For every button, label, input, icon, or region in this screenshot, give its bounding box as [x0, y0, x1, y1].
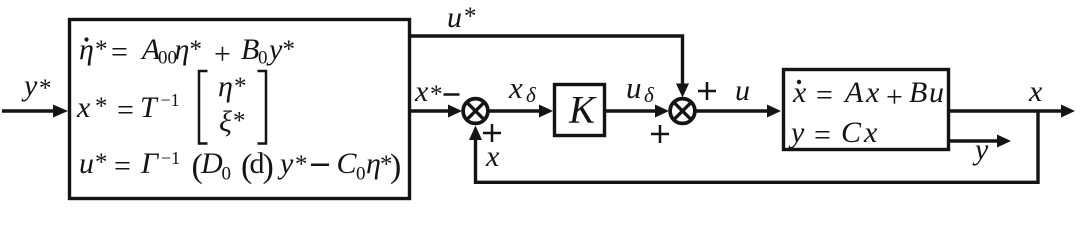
svg-text:B: B [909, 76, 927, 109]
svg-text:0: 0 [222, 164, 232, 185]
svg-text:x: x [485, 140, 500, 173]
svg-text:δ: δ [526, 83, 537, 107]
svg-text:y: y [21, 69, 38, 102]
svg-text:=: = [816, 79, 833, 112]
svg-text:C: C [337, 147, 358, 180]
svg-text:=: = [814, 119, 831, 152]
svg-text:+: + [214, 38, 231, 71]
svg-text:*: * [430, 81, 443, 108]
svg-text:η: η [218, 70, 233, 103]
svg-text:*: * [95, 149, 108, 176]
svg-text:*: * [234, 73, 247, 100]
svg-text:x: x [508, 70, 523, 105]
svg-text:*: * [39, 75, 52, 102]
svg-text:ξ: ξ [219, 106, 232, 139]
svg-text:x: x [1028, 75, 1043, 108]
svg-text:T: T [140, 91, 159, 124]
svg-text:*: * [95, 93, 108, 120]
svg-text:−1: −1 [161, 148, 180, 168]
svg-text:δ: δ [644, 83, 655, 107]
svg-text:K: K [568, 89, 597, 132]
svg-text:A: A [843, 76, 864, 109]
svg-text:Γ: Γ [140, 147, 160, 180]
svg-text:y: y [788, 116, 805, 149]
svg-text:u: u [626, 70, 642, 105]
svg-text:=: = [114, 150, 131, 183]
svg-text:=: = [117, 94, 134, 127]
svg-text:+: + [886, 81, 903, 114]
svg-text:0: 0 [258, 48, 268, 69]
svg-text:*: * [295, 151, 308, 178]
svg-text:−1: −1 [161, 90, 180, 110]
svg-text:u: u [447, 1, 462, 34]
svg-text:C: C [841, 116, 862, 149]
svg-text:x: x [414, 75, 429, 108]
svg-text:*: * [283, 36, 296, 63]
svg-text:D: D [200, 147, 223, 180]
svg-text:*: * [464, 3, 477, 30]
svg-text:x: x [863, 116, 878, 149]
svg-text:*: * [233, 108, 246, 135]
svg-text:=: = [111, 36, 128, 69]
svg-text:x: x [76, 91, 91, 124]
svg-text:x: x [865, 76, 880, 109]
svg-text:u: u [79, 147, 94, 180]
svg-text:0: 0 [356, 164, 366, 185]
svg-text:y: y [972, 133, 989, 166]
svg-text:B: B [241, 33, 259, 66]
svg-text:*: * [95, 36, 108, 63]
svg-text:): ) [263, 148, 274, 185]
svg-text:u: u [929, 76, 944, 109]
svg-text:u: u [735, 74, 750, 107]
svg-text:*: * [190, 36, 203, 63]
svg-text:η: η [175, 33, 190, 66]
svg-text:y: y [277, 147, 294, 180]
svg-text:y: y [266, 33, 283, 66]
svg-text:η: η [366, 147, 381, 180]
svg-text:): ) [390, 148, 401, 185]
